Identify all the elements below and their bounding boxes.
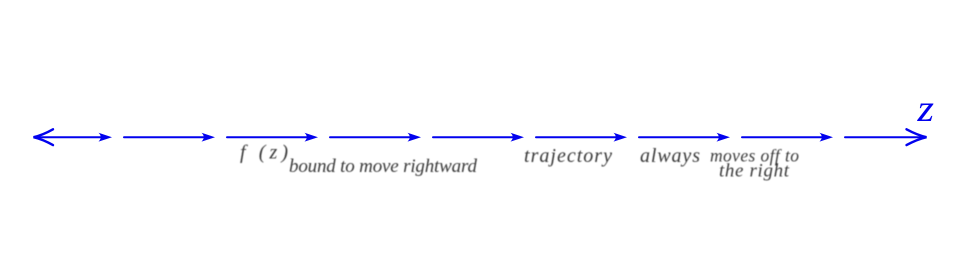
- wire axis segment 3: [227, 136, 310, 138]
- wire axis segment 7: [639, 136, 722, 138]
- direction arrow 6: [614, 133, 628, 142]
- svg-text:the right: the right: [719, 161, 790, 182]
- wire axis segment 8: [742, 136, 825, 138]
- svg-text:always: always: [640, 145, 700, 167]
- direction arrow 7: [717, 133, 731, 142]
- svg-text:z: z: [916, 88, 934, 130]
- direction arrow 5: [511, 133, 525, 142]
- direction arrow 4: [408, 133, 422, 142]
- svg-text:bound to move rightward: bound to move rightward: [289, 156, 478, 177]
- wire axis segment 9: [845, 136, 924, 138]
- wire axis segment 1: [36, 136, 104, 138]
- direction arrow 1: [99, 133, 113, 142]
- axis right arrowhead: [907, 129, 927, 145]
- wire axis segment 5: [433, 136, 516, 138]
- svg-text:f (z): f (z): [240, 142, 288, 164]
- svg-text:trajectory: trajectory: [524, 145, 612, 167]
- wire axis segment 6: [536, 136, 619, 138]
- direction arrow 3: [305, 133, 319, 142]
- wire axis segment 2: [124, 136, 207, 138]
- direction arrow 2: [202, 133, 216, 142]
- wire axis segment 4: [330, 136, 413, 138]
- axis left arrowhead: [34, 129, 54, 145]
- direction arrow 8: [820, 133, 834, 142]
